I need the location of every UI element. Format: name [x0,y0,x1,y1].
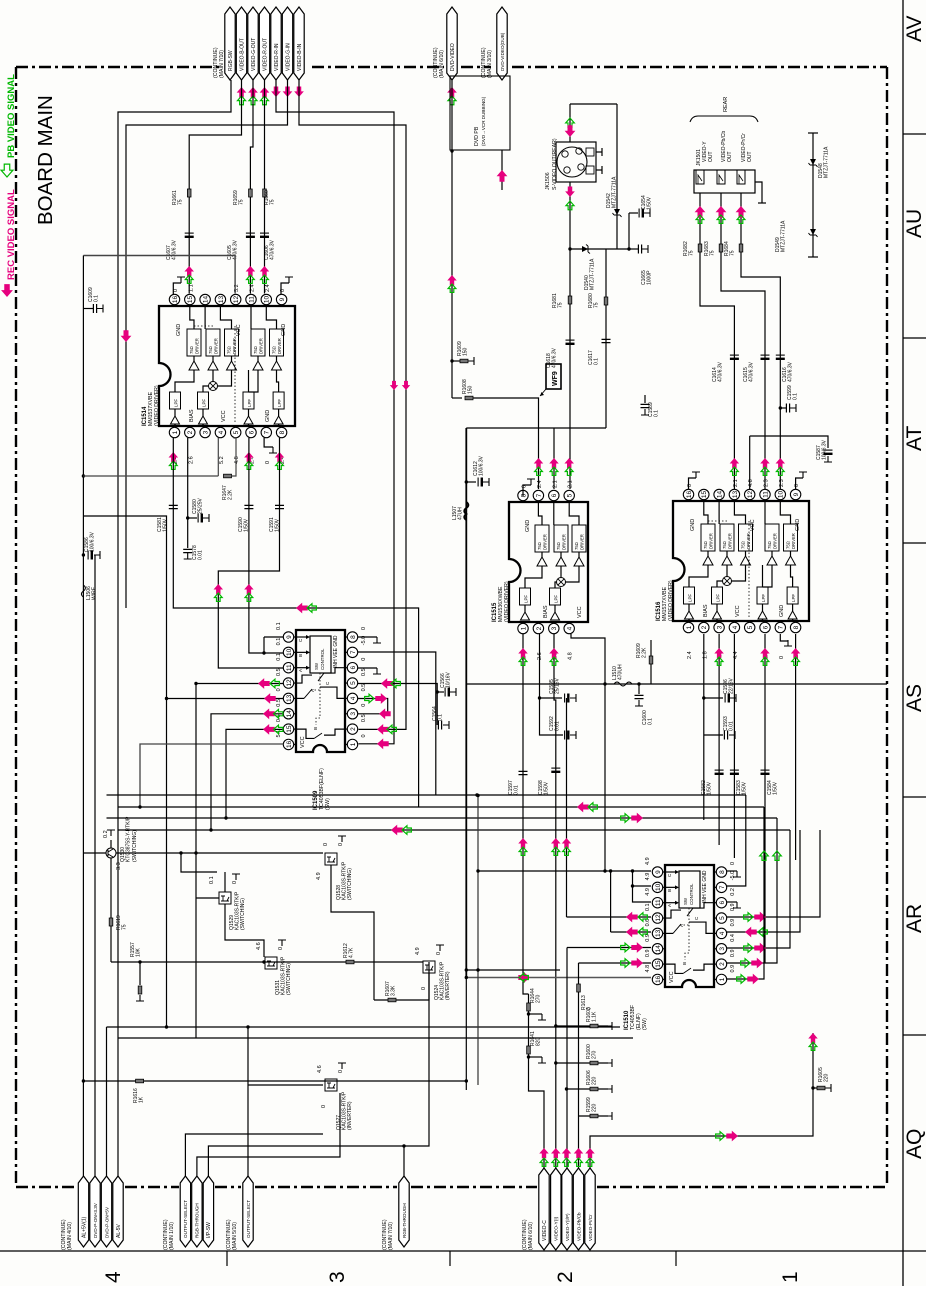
IC1509 pin16 VCC wire left [140,744,284,807]
svg-text:0.01: 0.01 [514,785,520,795]
svg-text:0: 0 [278,947,284,950]
svg-text:4.8: 4.8 [645,965,651,973]
svg-text:0.1: 0.1 [654,410,660,417]
IC1510 pin2 wire [727,818,777,963]
svg-text:11: 11 [655,899,662,906]
bus line y818 [107,817,778,819]
arrows on bus y818 [621,814,630,823]
svg-text:BIAS: BIAS [189,409,195,422]
svg-text:AV: AV [903,16,926,42]
capacitor C1595 25/16V [540,697,563,699]
svg-text:11: 11 [248,296,255,303]
svg-text:75Ω: 75Ω [253,346,258,354]
IC1514 pin9 gnd stub [281,283,289,294]
svg-text:100/6.3V: 100/6.3V [822,439,828,460]
svg-text:75Ω: 75Ω [703,541,708,549]
wire IC1514 pin1 down to switch row [173,438,418,807]
analog switch IC1509 TC4053BF [296,630,345,752]
capacitor C1616 470/6.3V [776,354,785,356]
svg-text:10K: 10K [136,947,142,957]
svg-text:13: 13 [732,491,739,499]
svg-text:OUT: OUT [727,151,733,162]
svg-text:RGB-THROUGH: RGB-THROUGH [402,1203,407,1238]
svg-text:DVD-P-ON+3.3V: DVD-P-ON+3.3V [93,1202,98,1238]
svg-text:14: 14 [655,945,662,953]
wire Q1530 collector row [83,852,106,854]
resistor R1684 75 [739,244,743,252]
svg-text:1: 1 [520,626,527,630]
board outline dash-dot top [16,66,221,68]
svg-text:75: 75 [178,199,184,205]
svg-text:25/25V: 25/25V [198,497,204,514]
svg-text:2.4: 2.4 [687,651,693,659]
svg-text:OUT: OUT [708,151,714,162]
bottom bus y1027 [107,1026,621,1028]
wire IC1515 pin1 down to R1644 column [523,634,529,994]
svg-text:0.01: 0.01 [198,550,204,560]
diode D1549 MTZJT-7711A [810,229,816,235]
arrows under DVD-VIDEO flag [447,275,457,285]
wire VIDEO-G-IN net [126,80,288,608]
connector flag VIDEO-Y(I/P) [562,1168,572,1250]
arrows at IC1515 pin7 [534,458,544,468]
IC1509 pin13 wire left [167,698,284,700]
svg-text:7: 7 [264,430,271,434]
capacitor C1581 1/50V [169,505,178,508]
arrows under VIDEO-G-OUT [248,87,258,98]
svg-text:3: 3 [551,626,558,630]
jack JK1506 S-VIDEO OUT(REAR) [556,142,596,182]
svg-text:4: 4 [218,430,225,434]
svg-text:0: 0 [361,627,367,630]
arrow under VIDEO-G-IN [283,86,293,97]
wire IC1514 pin4 supply [83,475,218,477]
svg-text:150: 150 [468,385,474,394]
capacitor C1578 0.01 [187,438,189,548]
svg-text:LPF: LPF [247,399,252,407]
svg-text:220: 220 [592,1076,598,1085]
svg-text:(DVD→VCR DUBBING): (DVD→VCR DUBBING) [481,96,486,146]
transistor Q1524 KAC103S inverter [423,961,435,973]
capacitor C1654 1/50V [628,213,630,249]
green arrows on risers [760,851,769,860]
resistor R1607 3.3K [374,962,429,1000]
svg-text:DRIVER: DRIVER [232,338,237,354]
svg-text:1.1K: 1.1K [592,1011,598,1022]
connector flag AL+5V(1) [78,1176,88,1247]
IC1509 pin4 wire [358,699,388,715]
svg-text:(MAIN 7/10): (MAIN 7/10) [219,50,225,78]
svg-text:DRIVER: DRIVER [259,338,264,354]
arrows at IC1516 pins 13/11/10 [730,458,740,468]
svg-text:SW: SW [314,662,319,670]
svg-text:2.2K: 2.2K [642,647,648,658]
IC1509 pin12 wire left [196,683,284,685]
svg-text:DRIVER: DRIVER [277,338,282,354]
svg-text:9: 9 [279,297,286,301]
connector flag VIDEO-B-IN [294,7,304,80]
capacitor C1591 1/50V [275,505,284,508]
svg-text:DRIVER: DRIVER [728,533,733,549]
svg-text:0: 0 [323,843,329,846]
jack JK1501 VIDEO-Y/Pb/Pr OUT [694,170,755,193]
svg-text:2.4: 2.4 [265,284,271,292]
wire S-video Y line [569,104,571,142]
svg-text:150: 150 [463,347,469,356]
svg-text:75Ω: 75Ω [208,346,213,354]
svg-text:10: 10 [264,296,271,304]
wire S-video chroma down [569,182,571,489]
svg-text:270: 270 [592,1050,598,1059]
IC1509 pin8 gnd stub [358,636,377,638]
wire horizontal y516 [83,516,166,1027]
left rail DVD-P-ON+5V vertical [106,1027,108,1176]
connector flag RGB-SW [225,7,235,80]
svg-text:5.2: 5.2 [219,456,225,464]
arrow on G-IN net mid [121,330,132,342]
wire to IC1515 pin7 via R1608 [452,397,462,399]
op-amp IC1515 MM1536XWBE video driver [509,502,588,622]
svg-text:VIDEO-Pb/Cb: VIDEO-Pb/Cb [576,1212,581,1241]
svg-text:BOARD MAIN: BOARD MAIN [34,95,57,225]
svg-text:7: 7 [536,493,543,497]
capacitor C1583 1/50V [730,769,739,771]
svg-text:0.1: 0.1 [209,876,215,884]
svg-text:2: 2 [350,727,357,731]
arrows on bus y807 [577,802,589,813]
svg-text:MTZJT-7711A: MTZJT-7711A [612,176,618,208]
bus line y830 [118,829,790,831]
svg-text:VIDEO-R-OUT: VIDEO-R-OUT [262,38,268,71]
svg-text:VIDEO-Y(I/P): VIDEO-Y(I/P) [565,1213,570,1241]
svg-text:0.9: 0.9 [645,934,651,942]
svg-text:4.9: 4.9 [316,872,322,880]
IC1516 pin7 gnd stub [780,634,788,641]
svg-text:DRIVER: DRIVER [543,534,548,550]
svg-text:4.6: 4.6 [256,942,262,950]
svg-text:1: 1 [172,430,179,434]
svg-text:2.1: 2.1 [552,480,558,488]
grid border horizontal line bottom [0,1250,926,1252]
IC1510 pin1 wire [727,807,764,979]
svg-text:VIDEO-B-IN: VIDEO-B-IN [297,43,303,71]
svg-text:0.1: 0.1 [94,295,100,302]
svg-text:2.1: 2.1 [568,480,574,488]
svg-text:VCC: VCC [669,971,675,983]
svg-text:470/6.3V: 470/6.3V [172,239,178,260]
svg-text:1: 1 [350,742,357,746]
arrows bottom middle [518,972,530,983]
svg-text:4.7K: 4.7K [349,947,355,958]
connector flag VIDEO-Pr/Cr [585,1168,595,1250]
wire Q1527 input [196,1156,198,1158]
wire +B rail to IC1514 pin12 [83,256,235,294]
svg-text:6: 6 [248,430,255,434]
svg-text:6: 6 [719,901,726,905]
svg-text:DRIVER: DRIVER [580,534,585,550]
svg-text:470/6.3V: 470/6.3V [788,361,794,382]
capacitor C1589 0.1 [644,395,646,403]
svg-text:75: 75 [239,199,245,205]
wire VIDEO-R-OUT to IC1514 pin10 [264,80,266,294]
arrow at IC1509 pin1 [377,738,389,749]
svg-text:4.9: 4.9 [645,888,651,896]
wire VIDEO-Pr/Cr net long [590,1033,813,1168]
svg-text:0.9: 0.9 [730,903,736,911]
arrows above video flags [539,1148,549,1158]
grid tick marks right edge [903,133,926,135]
IC1514 pin16 gnd stub [173,283,181,294]
resistor R1681 75 [568,296,572,304]
svg-text:(VIDEO DRIVER): (VIDEO DRIVER) [154,385,160,426]
connector flag DVD-P-ON+3.3V [90,1176,100,1247]
arrows on bus y830 [391,825,403,836]
wire Q1530 emitter row to Q1524 [111,961,423,963]
connector flag VIDEO-R-IN [271,7,281,80]
board outline dash-dot right [886,67,888,1187]
svg-text:SW: SW [683,897,688,905]
long bus y684 with L1510 [467,683,887,685]
svg-text:INH VEE GND: INH VEE GND [333,635,339,668]
wire Q1524 output down to RGB-THROUGH [404,973,429,1176]
analog switch IC1510 TC4053BF [665,865,714,987]
svg-text:10/16V: 10/16V [446,671,452,688]
svg-text:4.9: 4.9 [645,873,651,881]
legend green open arrow [1,164,13,177]
wire IC1516 pin12 riser [749,436,751,489]
wire IC1516 pin2 down with C1596/C1593 [703,634,705,820]
capacitor C1614 470/6.3V [730,354,739,356]
svg-text:4.8: 4.8 [234,456,240,464]
capacitor C1564 0.1 [438,721,441,730]
transistor Q1531 KAC103S [225,904,264,957]
resistor R1683 75 [719,244,723,252]
svg-text:12: 12 [747,491,754,499]
wire IC1514 pin6 to IC1509 pins9-10 [249,438,284,653]
svg-text:75Ω: 75Ω [189,346,194,354]
svg-text:22/16V: 22/16V [729,677,735,694]
svg-text:LPF: LPF [761,594,766,602]
capacitor C1605 470/6.3V [246,232,255,234]
capacitor C1592 0.01 [564,731,566,740]
svg-text:BIAS: BIAS [703,604,709,617]
arrows on pin6 net [244,584,254,594]
resistor R1610 2.2K [650,640,652,684]
svg-text:6: 6 [551,493,558,497]
svg-text:CONTROL: CONTROL [320,648,325,670]
svg-text:75Ω: 75Ω [574,542,579,550]
arrows at IC1514 pin10 [260,266,270,276]
arrows under VIDEO-B-OUT [237,87,247,98]
svg-text:DVD PB: DVD PB [474,126,480,146]
svg-text:14: 14 [717,491,724,499]
resistor R1609 150 [452,360,460,362]
svg-text:0.1: 0.1 [594,358,600,365]
svg-text:VIDEO-Y(I): VIDEO-Y(I) [554,1216,560,1241]
resistor R1613 0 [578,963,580,1168]
svg-text:10: 10 [286,648,293,656]
IC1514 pin7 gnd stub [264,438,273,447]
svg-text:PB VIDEO SIGNAL: PB VIDEO SIGNAL [6,74,17,158]
svg-text:7: 7 [778,625,785,629]
wire DVD-VIDEO net [451,80,453,398]
board outline dash-dot bottom [16,1186,77,1188]
inductor L1506 [81,585,85,597]
svg-text:MTZJT-7711A: MTZJT-7711A [824,146,830,178]
svg-text:5: 5 [747,625,754,629]
svg-text:(MAIN 1/10): (MAIN 1/10) [169,1222,175,1250]
resistor R1599 220 [579,1115,609,1117]
inductor L1510 470UH [614,682,632,686]
arrows at IC1514 pin8 [275,452,285,462]
svg-text:11: 11 [286,664,293,671]
grid border vertical line right [902,0,904,1286]
svg-text:CONTROL: CONTROL [689,883,694,905]
svg-text:13: 13 [218,296,225,304]
IC1509 pin3 wire [358,713,388,715]
svg-text:1: 1 [686,625,693,629]
svg-text:3: 3 [350,712,357,716]
svg-text:100/6.3V: 100/6.3V [479,455,485,476]
svg-text:DRIVER: DRIVER [746,533,751,549]
svg-text:GND: GND [176,324,182,336]
svg-text:11: 11 [762,491,769,498]
svg-text:OUTPUT-SELECT: OUTPUT-SELECT [183,1200,188,1238]
box DVD PB note [450,76,510,150]
svg-text:LPF: LPF [202,399,207,407]
capacitor C1590 1/50V [244,505,253,508]
resistor R1641 820 [527,1046,531,1054]
IC1515 pin8 gnd stub [523,485,531,496]
arrows at IC1514 pin15 [184,266,194,276]
svg-text:3: 3 [326,1271,349,1283]
bus line y795 [107,794,747,796]
svg-text:0.1: 0.1 [645,903,651,911]
svg-text:RGB-THROUGH: RGB-THROUGH [195,1203,200,1238]
svg-text:5: 5 [567,493,574,497]
resistor R1557 10K [139,962,141,985]
svg-text:9: 9 [655,870,662,874]
svg-text:REC VIDEO SIGNAL: REC VIDEO SIGNAL [6,189,17,280]
svg-text:4: 4 [719,931,726,935]
svg-text:(SW): (SW) [642,1018,648,1030]
svg-text:0.1: 0.1 [276,638,282,646]
svg-text:4.9: 4.9 [645,857,651,865]
svg-text:1/50V: 1/50V [707,781,713,795]
svg-text:10: 10 [778,491,785,499]
capacitor C1580 25/25V [186,516,189,519]
wire VIDEO-B-OUT to IC1514 pin15 [189,80,241,294]
svg-text:DRIVER: DRIVER [562,534,567,550]
capacitor C1597 0.01 [519,771,528,774]
svg-text:0.9: 0.9 [645,949,651,957]
svg-text:75Ω: 75Ω [537,542,542,550]
svg-text:4: 4 [567,626,574,630]
svg-text:75: 75 [594,302,600,308]
svg-text:16: 16 [286,740,293,748]
svg-text:(INVERTER): (INVERTER) [445,971,451,1000]
svg-text:REAR: REAR [723,97,729,112]
svg-text:AQ: AQ [903,1129,926,1159]
arrows on pin1 row horizontal [296,603,308,614]
connector flag RGB-THROUGH [192,1176,202,1247]
transistor Q1527 KAC103S inverter [325,1079,337,1091]
svg-text:(SWITCHING): (SWITCHING) [132,830,138,862]
svg-text:4: 4 [102,1271,125,1283]
wires bottom flag group2 [185,1134,323,1176]
svg-text:(SWITCHING): (SWITCHING) [347,868,353,900]
capacitor C1599 0.1 [779,406,782,409]
svg-text:12: 12 [655,914,662,922]
svg-text:1/50V: 1/50V [742,781,748,795]
resistor R1600 270 [554,1061,557,1064]
svg-text:LPF: LPF [688,594,693,602]
svg-text:0: 0 [321,1105,327,1108]
wire VIDEO-G-OUT to IC1514 pin11 [250,80,253,294]
svg-text:(MAIN 3/10): (MAIN 3/10) [487,50,493,78]
svg-text:470UH: 470UH [618,664,624,680]
connector flag OUTPUT-SELECT [180,1176,190,1247]
svg-text:INH VEE GND: INH VEE GND [702,870,708,903]
svg-text:0.1: 0.1 [793,393,799,400]
arrows at IC1515 pin5 [564,458,574,468]
svg-text:220: 220 [824,1073,830,1082]
svg-text:9: 9 [793,492,800,496]
IC1509 pin14 wire left [211,714,284,830]
svg-text:8: 8 [719,870,726,874]
bottom bus y1038 [118,1037,633,1039]
svg-text:13: 13 [286,694,293,702]
svg-text:75Ω: 75Ω [722,541,727,549]
arrows on DVD nets mid [390,381,398,390]
resistor R1606 220 [565,1087,568,1090]
connector flag VIDEO-G-IN [282,7,292,80]
wire IC1516 pin3 down to IC1510 [718,634,720,845]
connector flag VIDEO-Pb/Cb [573,1168,583,1250]
resistor R1682 75 [698,244,702,252]
transistor Q1528 KAC103S [325,853,337,865]
svg-text:2.6: 2.6 [188,456,194,464]
svg-text:14: 14 [203,296,210,304]
svg-text:3: 3 [717,625,724,629]
svg-text:470/6.3V: 470/6.3V [270,239,276,260]
svg-text:10: 10 [655,883,662,891]
arrows at IC1515 pin6 [549,458,559,468]
svg-text:7: 7 [719,885,726,889]
svg-text:LPF: LPF [277,399,282,407]
svg-text:(SWITCHING): (SWITCHING) [240,898,246,930]
svg-text:75Ω: 75Ω [272,346,277,354]
svg-text:0.1: 0.1 [276,653,282,661]
IC1510 pin4 wire [727,830,800,932]
wire IC1510 pin14 to VIDEO-Y(I/P) flag [567,947,651,949]
capacitor C1612 100/6.3V [465,428,467,978]
svg-text:2: 2 [187,430,194,434]
svg-text:5: 5 [719,916,726,920]
svg-text:VCC: VCC [221,410,227,422]
resistor R1659 75 [249,189,253,197]
svg-text:75Ω: 75Ω [227,346,232,354]
capacitor C1586 100/6.3V [87,551,89,560]
capacitor C1665 1000P [629,248,638,250]
svg-text:BIAS: BIAS [543,605,549,618]
svg-text:WF9: WF9 [552,371,559,386]
svg-text:DRIVER: DRIVER [773,533,778,549]
capacitor C1587 100/6.3V [750,436,828,448]
wire VIDEO-B-IN net [299,80,406,729]
IC1510 pin7 VEE wire [727,795,746,886]
svg-text:75: 75 [558,302,564,308]
